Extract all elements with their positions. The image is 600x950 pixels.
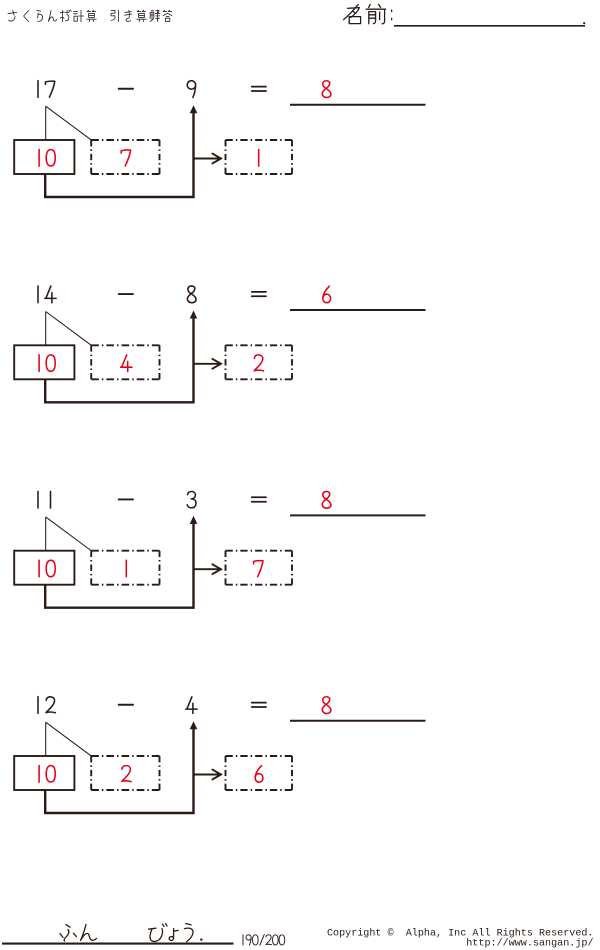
name label 名前: (344, 4, 392, 23)
name underline (394, 25, 585, 27)
problem 4 solid box (14, 756, 74, 790)
problem 1 subtrahend 9 (187, 81, 195, 98)
problem 1 value 10 in solid box (red) (38, 150, 40, 167)
problem 3 value 10 in solid box (red) (38, 560, 40, 577)
footer time blank line ふん びょう (60, 924, 193, 942)
problem 1 up arrowhead (190, 105, 198, 113)
problem 3 value 7 in dashed box 2 (red) (254, 561, 263, 577)
period at end of name line (583, 22, 585, 24)
problem 1 bottom connector path (45, 113, 193, 198)
problem 2 value 10 in solid box (red) (38, 355, 40, 372)
problem 2 solid box (14, 345, 74, 379)
problem 3 bottom connector path (45, 523, 193, 608)
problem 1 dashed box 1 (91, 140, 159, 174)
footer page number 190/200 (243, 935, 285, 946)
problem 3 value 1 in dashed box 1 (red) (125, 560, 127, 577)
problem 1 equals sign (252, 87, 266, 91)
problem 4 value 6 in dashed box 2 (red) (255, 766, 263, 783)
problem 4 equals sign (252, 703, 266, 707)
problem 2 value 4 in dashed box 1 (red) (121, 355, 132, 372)
problem 2 right arrow (195, 359, 222, 369)
problem 2 up arrowhead (190, 311, 198, 319)
problem 4 dashed box 1 (91, 756, 159, 790)
problem 3 up arrowhead (190, 516, 198, 524)
problem 4 value 2 in dashed box 1 (red) (122, 766, 131, 782)
problem 2 answer 6 (red) (323, 286, 331, 303)
svg-text:http://www.sangan.jp/: http://www.sangan.jp/ (466, 938, 593, 950)
problem 1 value 7 in dashed box 1 (red) (121, 150, 130, 166)
problem 3 dashed box 1 (91, 551, 159, 585)
problem 2 answer underline (290, 309, 426, 311)
problem 1 right arrow (195, 154, 222, 164)
problem 3 dashed box 2 (226, 551, 293, 585)
problem 4 bottom connector path (45, 729, 193, 814)
problem 2 cherry split lines (46, 312, 93, 347)
problem 1 minuend 17 (37, 81, 39, 98)
problem 4 subtrahend 4 (186, 697, 197, 714)
problem 1 answer underline (290, 104, 426, 106)
problem 2 value 2 in dashed box 2 (red) (254, 355, 263, 371)
problem 1 solid box (14, 140, 74, 174)
problem 4 dashed box 2 (226, 756, 293, 790)
problem 2 dashed box 2 (226, 345, 293, 379)
problem 3 right arrow (195, 564, 222, 574)
problem 3 minuend 11 (37, 491, 39, 508)
problem 4 right arrow (195, 770, 222, 780)
problem 3 cherry split lines (46, 517, 93, 552)
problem 2 dashed box 1 (91, 345, 159, 379)
problem 4 up arrowhead (190, 721, 198, 729)
problem 4 value 10 in solid box (red) (38, 766, 40, 783)
problem 1 dashed box 2 (226, 140, 293, 174)
problem 2 subtrahend 8 (187, 286, 196, 303)
footer period after びょう (200, 938, 202, 940)
problem 3 minus sign (119, 498, 133, 500)
problem 3 answer underline (290, 514, 426, 516)
problem 1 minus sign (119, 88, 133, 90)
problem 4 answer 8 (red) (322, 697, 331, 714)
footer underline (2, 943, 234, 945)
problem 2 minus sign (119, 293, 133, 295)
problem 4 minus sign (119, 704, 133, 706)
problem 1 value 1 in dashed box 2 (red) (258, 150, 260, 167)
problem 3 subtrahend 3 (187, 492, 196, 508)
problem 2 minuend 14 (37, 286, 39, 303)
problem 1 cherry split lines (46, 106, 93, 141)
problem 4 cherry split lines (46, 722, 93, 757)
problem 4 minuend 12 (37, 697, 39, 714)
problem 1 answer 8 (red) (322, 81, 331, 98)
problem 4 answer underline (290, 720, 426, 722)
problem 3 equals sign (252, 497, 266, 501)
svg-text:Copyright © Alpha, Inc All Ri: Copyright © Alpha, Inc All Rights Reserv… (327, 927, 594, 939)
problem 3 answer 8 (red) (322, 491, 331, 508)
problem 2 equals sign (252, 292, 266, 296)
header title sakuranbo keisan hikizan kaitou (8, 10, 172, 22)
problem 3 solid box (14, 551, 74, 585)
problem 2 bottom connector path (45, 318, 193, 403)
